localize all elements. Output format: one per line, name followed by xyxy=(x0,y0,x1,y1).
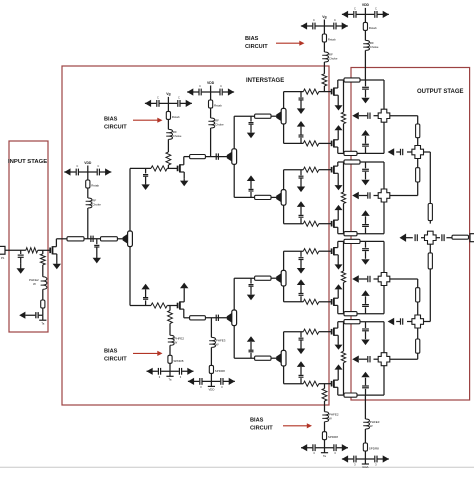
svg-text:Vg: Vg xyxy=(322,15,326,19)
svg-text:CIRCUIT: CIRCUIT xyxy=(104,124,127,130)
svg-text:Rstab: Rstab xyxy=(369,26,377,30)
svg-text:SPDR8: SPDR8 xyxy=(369,447,379,451)
svg-text:VDD: VDD xyxy=(208,388,214,392)
svg-text:C: C xyxy=(220,84,222,88)
svg-text:CIRCUIT: CIRCUIT xyxy=(250,426,273,432)
svg-text:C: C xyxy=(313,18,315,22)
svg-text:OUTPUT STAGE: OUTPUT STAGE xyxy=(417,89,464,95)
svg-text:INPUT STAGE: INPUT STAGE xyxy=(8,159,47,165)
svg-text:VDD: VDD xyxy=(207,81,215,85)
svg-text:VDD: VDD xyxy=(362,3,370,7)
svg-text:Choke: Choke xyxy=(92,203,101,207)
svg-text:C: C xyxy=(157,95,159,99)
svg-text:W: W xyxy=(370,424,373,428)
svg-text:Rstab: Rstab xyxy=(328,38,336,42)
svg-text:SPDR8: SPDR8 xyxy=(173,359,183,363)
svg-text:CIRCUIT: CIRCUIT xyxy=(104,357,127,363)
svg-text:Ta: Ta xyxy=(169,378,172,382)
svg-text:BIAS: BIAS xyxy=(104,349,118,355)
svg-text:W: W xyxy=(174,340,177,344)
svg-text:C: C xyxy=(334,18,336,22)
svg-text:P1: P1 xyxy=(1,256,5,260)
svg-text:W: W xyxy=(33,282,36,286)
svg-text:VDD: VDD xyxy=(84,161,92,165)
svg-text:Rstab: Rstab xyxy=(172,115,180,119)
svg-text:C: C xyxy=(375,6,377,10)
svg-text:C: C xyxy=(97,164,99,168)
svg-text:INTERSTAGE: INTERSTAGE xyxy=(246,78,284,84)
svg-text:Rstab: Rstab xyxy=(91,184,99,188)
svg-text:Ta: Ta xyxy=(41,321,44,325)
svg-text:CIRCUIT: CIRCUIT xyxy=(245,44,268,50)
svg-text:SPDR8: SPDR8 xyxy=(215,369,225,373)
svg-text:Ta: Ta xyxy=(323,454,326,458)
svg-text:Rstab: Rstab xyxy=(214,104,222,108)
svg-text:Choke: Choke xyxy=(173,134,182,138)
svg-text:Vg: Vg xyxy=(166,92,170,96)
svg-text:BIAS: BIAS xyxy=(104,116,118,122)
svg-text:W: W xyxy=(216,342,219,346)
svg-text:Choke: Choke xyxy=(329,57,338,61)
svg-text:C: C xyxy=(199,84,201,88)
svg-text:SPDR8: SPDR8 xyxy=(328,435,338,439)
svg-text:C: C xyxy=(178,95,180,99)
svg-text:C: C xyxy=(76,164,78,168)
svg-text:W: W xyxy=(329,417,332,421)
svg-text:GGA: GGA xyxy=(362,465,368,469)
svg-text:Choke: Choke xyxy=(215,123,224,127)
svg-text:C: C xyxy=(354,6,356,10)
svg-text:Choke: Choke xyxy=(370,45,379,49)
svg-text:BIAS: BIAS xyxy=(250,418,264,424)
svg-text:BIAS: BIAS xyxy=(245,36,259,42)
